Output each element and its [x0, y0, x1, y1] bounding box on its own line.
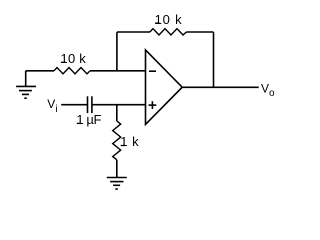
wire feedback top right segment [187, 31, 214, 33]
op-amp minus sign [149, 70, 156, 72]
wire junction down to R3 [116, 105, 118, 121]
svg-text:1 k: 1 k [120, 134, 139, 149]
capacitor C1 1 uF [88, 96, 92, 113]
ground (left, input side) [16, 71, 36, 98]
wire R1 to inverting input [90, 70, 146, 72]
wire output [182, 86, 259, 88]
wire R3 to ground [116, 160, 118, 178]
wire feedback left vertical [116, 32, 118, 71]
wire from ground to R1 [26, 70, 54, 72]
wire feedback top left segment [117, 31, 150, 33]
resistor R1 10 k (left) [54, 68, 90, 74]
svg-text:10 k: 10 k [155, 12, 183, 27]
op-amp plus sign [149, 101, 157, 109]
svg-text:1 µF: 1 µF [76, 112, 101, 127]
resistor R2 10 k (feedback) [150, 29, 187, 35]
wire Vi to C1 [61, 104, 87, 106]
wire C1 to non-inverting input [92, 104, 146, 106]
resistor R3 1 k (vertical) [113, 121, 121, 160]
wire feedback right vertical [213, 32, 215, 87]
op-amp U1 triangle [146, 50, 183, 124]
svg-text:10 k: 10 k [61, 51, 87, 66]
ground (bottom, under R3) [107, 178, 127, 190]
